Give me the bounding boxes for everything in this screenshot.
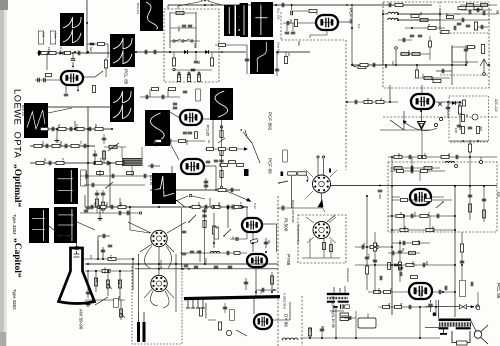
svg-text:0,47: 0,47 <box>239 202 243 208</box>
capacitor <box>83 144 85 149</box>
scope14 pointer <box>176 196 188 201</box>
svg-text:Ablenkeinheit: Ablenkeinheit <box>204 303 208 319</box>
resistor <box>92 86 95 93</box>
wire <box>224 303 226 313</box>
resistor <box>330 245 333 252</box>
svg-text:300: 300 <box>479 126 483 131</box>
svg-text:Type 3352: Type 3352 <box>12 289 17 310</box>
svg-text:PCF 802: PCF 802 <box>268 112 273 131</box>
winding loop <box>452 331 470 343</box>
wire x352 <box>351 5 353 22</box>
wire C3 right <box>331 185 498 187</box>
scope inset 6 <box>110 34 135 67</box>
resistor <box>199 308 202 316</box>
scope label strip K <box>81 170 87 186</box>
parts right mid <box>468 194 473 196</box>
scope inset 9 <box>145 110 170 146</box>
caps left <box>102 137 107 139</box>
tube socket S1 <box>151 230 167 246</box>
scope inset 2 <box>140 0 163 31</box>
capacitor <box>48 161 50 166</box>
tuning eye <box>418 122 426 130</box>
pot lever <box>436 202 443 208</box>
wire <box>389 85 391 102</box>
diag wire <box>390 120 404 130</box>
wire <box>252 232 254 252</box>
capacitor <box>230 188 232 193</box>
pointer to scope7 <box>48 108 72 113</box>
wire <box>390 167 440 169</box>
wire <box>131 166 133 176</box>
resistor <box>447 16 454 19</box>
wire <box>97 236 99 259</box>
wire <box>398 13 440 15</box>
diode <box>205 50 209 54</box>
svg-text:1n: 1n <box>367 254 371 258</box>
svg-text:2n: 2n <box>287 53 291 57</box>
wire <box>379 194 381 199</box>
tube V8 PL500 <box>242 218 262 232</box>
capacitor <box>219 159 224 161</box>
capacitor <box>422 263 424 268</box>
junction dots <box>169 51 171 53</box>
svg-text:1M: 1M <box>117 280 121 285</box>
svg-text:AW 59-90: AW 59-90 <box>79 309 84 330</box>
TR1 wires <box>335 306 337 338</box>
cap mark <box>329 169 331 173</box>
svg-text:5n: 5n <box>379 98 383 102</box>
svg-text:10n: 10n <box>413 212 417 217</box>
capacitor <box>110 205 112 210</box>
dot <box>95 270 97 272</box>
wire <box>451 45 453 85</box>
term <box>476 306 480 310</box>
wire <box>150 140 205 142</box>
wire <box>420 77 450 79</box>
wire <box>419 307 421 338</box>
term <box>173 68 175 70</box>
wire <box>209 198 211 207</box>
tube V3 PCL85 <box>181 159 204 174</box>
capacitor <box>354 100 356 105</box>
svg-text:0,1: 0,1 <box>411 261 415 266</box>
wire <box>271 272 273 292</box>
radial2 <box>144 289 152 298</box>
row y265 <box>355 264 455 266</box>
svg-text:1k: 1k <box>99 158 103 162</box>
capacitor <box>85 174 87 179</box>
tube V9 PY88 <box>247 254 267 267</box>
capacitor <box>453 26 455 31</box>
coil <box>388 18 392 20</box>
capacitor <box>43 78 45 83</box>
wire <box>398 19 440 21</box>
resistor <box>374 291 381 294</box>
resistor <box>298 172 307 175</box>
wire <box>383 13 388 15</box>
wire <box>95 271 97 292</box>
wire row <box>36 128 112 130</box>
wire <box>72 53 74 58</box>
svg-text:5k6: 5k6 <box>89 47 93 52</box>
wire <box>403 216 405 230</box>
svg-text:1k: 1k <box>431 77 435 81</box>
svg-text:25: 25 <box>91 296 95 300</box>
row y307 <box>378 306 432 308</box>
wire <box>455 19 490 21</box>
transformer ground <box>443 330 445 334</box>
resistor <box>95 127 103 130</box>
dot <box>72 66 74 68</box>
resistor <box>220 149 223 156</box>
wire <box>132 259 134 290</box>
svg-text:1n: 1n <box>423 153 427 157</box>
resistor <box>98 205 106 208</box>
transformer mains <box>439 319 472 322</box>
resistor <box>415 70 418 78</box>
wire <box>138 254 140 312</box>
wire <box>292 10 308 12</box>
wire <box>148 165 160 167</box>
wire <box>170 12 196 14</box>
wire <box>435 300 437 316</box>
wire <box>398 13 460 15</box>
wire <box>129 207 131 230</box>
capacitor <box>204 205 206 210</box>
wire <box>398 39 412 41</box>
wire x367 <box>366 196 368 290</box>
row y243r <box>392 242 430 244</box>
svg-text:Bild: Bild <box>42 33 46 38</box>
wire <box>344 317 356 319</box>
pointer scope12 <box>49 226 60 235</box>
wire <box>87 170 89 207</box>
term <box>480 161 483 164</box>
elco <box>90 42 95 44</box>
resistor <box>36 161 44 164</box>
wire <box>317 159 319 175</box>
svg-text:50k: 50k <box>403 226 407 231</box>
resistor <box>396 214 404 217</box>
svg-text:1k: 1k <box>375 243 379 247</box>
svg-text:0,1: 0,1 <box>357 24 361 29</box>
svg-text:PCF 80: PCF 80 <box>349 8 354 24</box>
wire <box>421 85 423 94</box>
capacitor <box>461 18 463 23</box>
wire <box>99 170 101 176</box>
resistor <box>477 127 480 134</box>
svg-text:60: 60 <box>419 12 423 16</box>
dashed sync box bottom <box>281 39 346 41</box>
resistor <box>52 144 60 147</box>
resistor <box>376 100 384 103</box>
resistor <box>323 243 326 250</box>
resistor <box>308 328 311 336</box>
svg-text:Fernabstimmung: Fernabstimmung <box>297 224 301 244</box>
tube V5 PCF802 <box>411 94 434 109</box>
diode <box>184 50 188 54</box>
svg-text:0,1: 0,1 <box>61 158 65 163</box>
capacitor <box>441 69 443 74</box>
tube socket S3 <box>313 175 331 193</box>
wire <box>87 271 89 298</box>
wire row <box>48 106 112 108</box>
wire <box>262 223 277 225</box>
dot <box>169 51 171 53</box>
capacitor <box>446 106 451 108</box>
wire <box>98 235 110 237</box>
gnd <box>87 302 89 305</box>
wire <box>403 111 405 130</box>
resistor <box>102 269 110 272</box>
cap <box>244 281 249 283</box>
svg-text:25: 25 <box>43 158 47 162</box>
bus y52 <box>136 51 246 53</box>
wire x228 <box>227 207 229 228</box>
wire <box>289 302 291 320</box>
resistor <box>406 263 414 266</box>
wire <box>109 242 111 256</box>
caps col x205 <box>202 209 207 211</box>
parts right <box>275 68 280 70</box>
wire <box>104 146 126 148</box>
wire <box>442 284 444 292</box>
deflection yoke bar <box>184 295 280 300</box>
tilt resistor <box>250 238 258 243</box>
resistor <box>56 161 64 164</box>
svg-text:70: 70 <box>231 236 235 240</box>
dot <box>87 270 89 272</box>
capacitor <box>408 305 410 310</box>
small terms <box>434 123 437 126</box>
top row <box>140 96 180 98</box>
coil <box>282 338 286 340</box>
pointer I to T3 <box>170 143 179 160</box>
svg-text:50k: 50k <box>297 41 301 46</box>
svg-text:Bild Hirtz: Bild Hirtz <box>136 3 140 15</box>
capacitor <box>378 189 383 191</box>
svg-text:1k: 1k <box>427 24 431 28</box>
wire <box>213 213 215 248</box>
svg-text:PCL85: PCL85 <box>159 260 163 270</box>
wire y208 <box>277 207 322 209</box>
svg-text:1M: 1M <box>391 61 395 66</box>
scope label strip A1 <box>38 31 44 44</box>
resistor <box>218 188 226 191</box>
wire <box>469 140 471 157</box>
row y213 <box>80 212 140 214</box>
resistor <box>118 280 121 288</box>
wire <box>171 166 173 178</box>
yoke leads <box>187 300 189 308</box>
svg-text:Zeile 5V: Zeile 5V <box>149 175 153 185</box>
heater bus2 <box>135 268 278 270</box>
wire <box>107 271 109 296</box>
svg-text:470k: 470k <box>103 267 107 274</box>
svg-text:50: 50 <box>93 202 97 206</box>
capacitor <box>281 206 283 211</box>
focus electrode bars <box>137 322 140 342</box>
V7 row y292 <box>368 291 409 293</box>
wire <box>204 208 206 264</box>
coil <box>388 12 392 14</box>
svg-text:LOEWE OPTA: LOEWE OPTA <box>13 89 23 159</box>
resistor <box>384 291 391 294</box>
svg-text:0,47: 0,47 <box>253 203 257 209</box>
value strip <box>460 281 466 297</box>
resistor <box>418 155 426 158</box>
wire <box>170 242 228 244</box>
resistor <box>441 30 449 33</box>
svg-text:2k: 2k <box>465 114 469 118</box>
svg-text:PC ..: PC .. <box>496 192 500 201</box>
svg-text:220–110: 220–110 <box>494 99 498 112</box>
wire <box>302 257 340 259</box>
wire <box>434 101 460 103</box>
pot lever <box>218 138 225 143</box>
dot <box>74 128 76 130</box>
capacitor <box>182 24 187 26</box>
x462 col <box>461 232 463 280</box>
svg-text:50: 50 <box>117 296 121 300</box>
svg-text:50: 50 <box>447 153 451 157</box>
resistor <box>118 205 126 208</box>
svg-text:Drucktasten: Drucktasten <box>346 268 350 282</box>
svg-text:220: 220 <box>407 50 411 55</box>
wire <box>96 190 98 213</box>
wire <box>130 230 150 233</box>
dashed box tuner <box>383 2 489 88</box>
svg-text:DY 86: DY 86 <box>284 314 289 327</box>
capacitor <box>361 245 363 250</box>
dashed box remote <box>298 215 346 263</box>
resistor <box>395 306 402 309</box>
dashed box right-mid <box>388 162 497 232</box>
wire <box>245 278 247 290</box>
lever <box>106 182 113 188</box>
top caps <box>204 180 209 182</box>
row y253r <box>409 252 416 255</box>
wire <box>109 163 111 207</box>
resistor <box>94 161 102 164</box>
capacitor <box>101 249 106 251</box>
svg-text:100: 100 <box>47 47 51 52</box>
parts y168 <box>394 166 402 169</box>
capacitor <box>348 316 350 320</box>
wire <box>469 157 471 186</box>
svg-text:PCL85: PCL85 <box>206 125 210 136</box>
scan edge shading left <box>0 0 4 346</box>
svg-text:(6+8)(17N3)(5L DY 86: (6+8)(17N3)(5L DY 86 <box>331 296 335 328</box>
wire <box>483 186 485 222</box>
row y185 <box>84 184 145 186</box>
svg-text:1M: 1M <box>42 124 46 129</box>
resistor <box>127 172 134 175</box>
transformer line-output <box>327 293 350 295</box>
valuebox <box>230 310 235 321</box>
dot <box>86 52 88 54</box>
wire <box>351 22 353 62</box>
wire <box>246 45 248 74</box>
term F <box>322 156 324 158</box>
tube V1 sound output <box>61 71 83 85</box>
scope inset 14 <box>152 173 176 204</box>
capacitor <box>77 51 79 56</box>
diode <box>60 51 64 55</box>
term <box>220 126 222 128</box>
dot <box>211 4 213 6</box>
wire y23 <box>283 22 316 24</box>
capacitor <box>51 127 53 132</box>
socket3 stubs <box>306 170 313 177</box>
wire <box>167 5 169 9</box>
resistor <box>219 44 226 47</box>
valuebox <box>283 150 288 162</box>
svg-text:100: 100 <box>366 98 370 103</box>
capacitor <box>468 126 473 128</box>
capacitor <box>64 93 69 95</box>
wire <box>455 13 497 15</box>
wire row y157 <box>388 156 497 158</box>
wire <box>99 207 101 216</box>
svg-text:PCL 85: PCL 85 <box>496 283 500 299</box>
parts <box>398 250 403 252</box>
resistor <box>420 214 428 217</box>
row y172r <box>390 170 445 172</box>
wire <box>309 327 311 338</box>
scope inset 11 <box>54 168 78 204</box>
bottom resistors <box>177 75 180 82</box>
dashed divider vertical <box>277 196 279 346</box>
resistor <box>468 46 475 49</box>
svg-text:1M: 1M <box>109 255 113 260</box>
capacitor <box>436 214 438 219</box>
resistor <box>176 11 184 14</box>
gnd <box>56 138 58 141</box>
resistor <box>152 88 159 91</box>
wire <box>347 101 398 103</box>
dashed box crt-socket <box>132 264 182 344</box>
scope inset 8 <box>110 87 134 122</box>
capacitor <box>191 68 196 70</box>
tube V6 EF80 <box>410 189 431 205</box>
svg-text:10k: 10k <box>41 141 45 146</box>
capacitor <box>388 3 390 8</box>
wire x400b <box>399 240 401 282</box>
roof wires <box>178 2 201 7</box>
capacitor <box>418 34 423 36</box>
socket4 stubs <box>306 217 314 223</box>
resistor <box>462 115 465 122</box>
wire <box>149 89 151 97</box>
dot <box>72 52 74 54</box>
resistor <box>46 73 52 76</box>
resistor <box>474 22 477 30</box>
arrow input a <box>243 130 247 137</box>
svg-text:2M: 2M <box>417 240 421 245</box>
wire <box>158 247 160 275</box>
wire <box>477 26 488 28</box>
dot <box>87 162 89 164</box>
svg-text:500: 500 <box>59 141 63 146</box>
cap pair mid <box>144 50 146 55</box>
svg-text:50: 50 <box>387 303 391 307</box>
capacitor <box>372 63 374 68</box>
capacitor <box>102 234 104 239</box>
v6 leads <box>392 196 400 198</box>
wire <box>380 129 430 131</box>
pot arrow <box>109 145 117 148</box>
